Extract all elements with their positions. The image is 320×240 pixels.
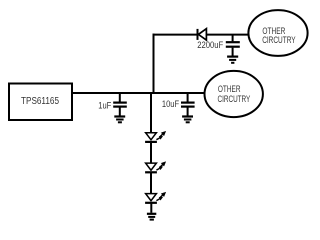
diode D1 bbox=[198, 29, 207, 40]
wire LED string segment 2 bbox=[150, 142, 152, 163]
ground GND3 bbox=[227, 57, 238, 63]
svg-text:10uF: 10uF bbox=[162, 99, 180, 109]
wire LED string segment 3 bbox=[150, 172, 152, 193]
wire LED string tail bbox=[150, 203, 152, 213]
LED D4 bbox=[145, 192, 166, 203]
ground GND4 bbox=[147, 214, 156, 220]
ground GND2 bbox=[182, 117, 193, 123]
label OTHER CIRCUTRY middle bbox=[218, 84, 251, 104]
svg-text:2200uF: 2200uF bbox=[197, 39, 223, 50]
svg-text:TPS61165: TPS61165 bbox=[21, 96, 59, 107]
other circuitry block middle (ellipse) bbox=[205, 71, 263, 117]
capacitor C2 10uF bbox=[181, 93, 195, 116]
wire riser to top rail bbox=[153, 34, 155, 94]
capacitor C3 2200uF bbox=[226, 35, 240, 56]
other circuitry block top (ellipse) bbox=[248, 10, 307, 56]
svg-text:CIRCUTRY: CIRCUTRY bbox=[262, 35, 295, 45]
LED D2 bbox=[145, 131, 166, 142]
wire top rail right segment bbox=[206, 34, 249, 36]
svg-text:OTHER: OTHER bbox=[218, 84, 241, 94]
wire main bus bbox=[72, 92, 204, 94]
LED D3 bbox=[145, 162, 166, 173]
wire top rail left segment bbox=[153, 34, 198, 36]
capacitor C1 1uF bbox=[113, 93, 127, 116]
label OTHER CIRCUTRY top bbox=[262, 26, 295, 45]
wire LED string segment 1 bbox=[150, 93, 152, 133]
svg-text:1uF: 1uF bbox=[98, 100, 111, 110]
ground GND1 bbox=[114, 117, 125, 123]
IC U1 TPS61165 bbox=[9, 84, 72, 121]
svg-text:CIRCUTRY: CIRCUTRY bbox=[218, 94, 251, 104]
